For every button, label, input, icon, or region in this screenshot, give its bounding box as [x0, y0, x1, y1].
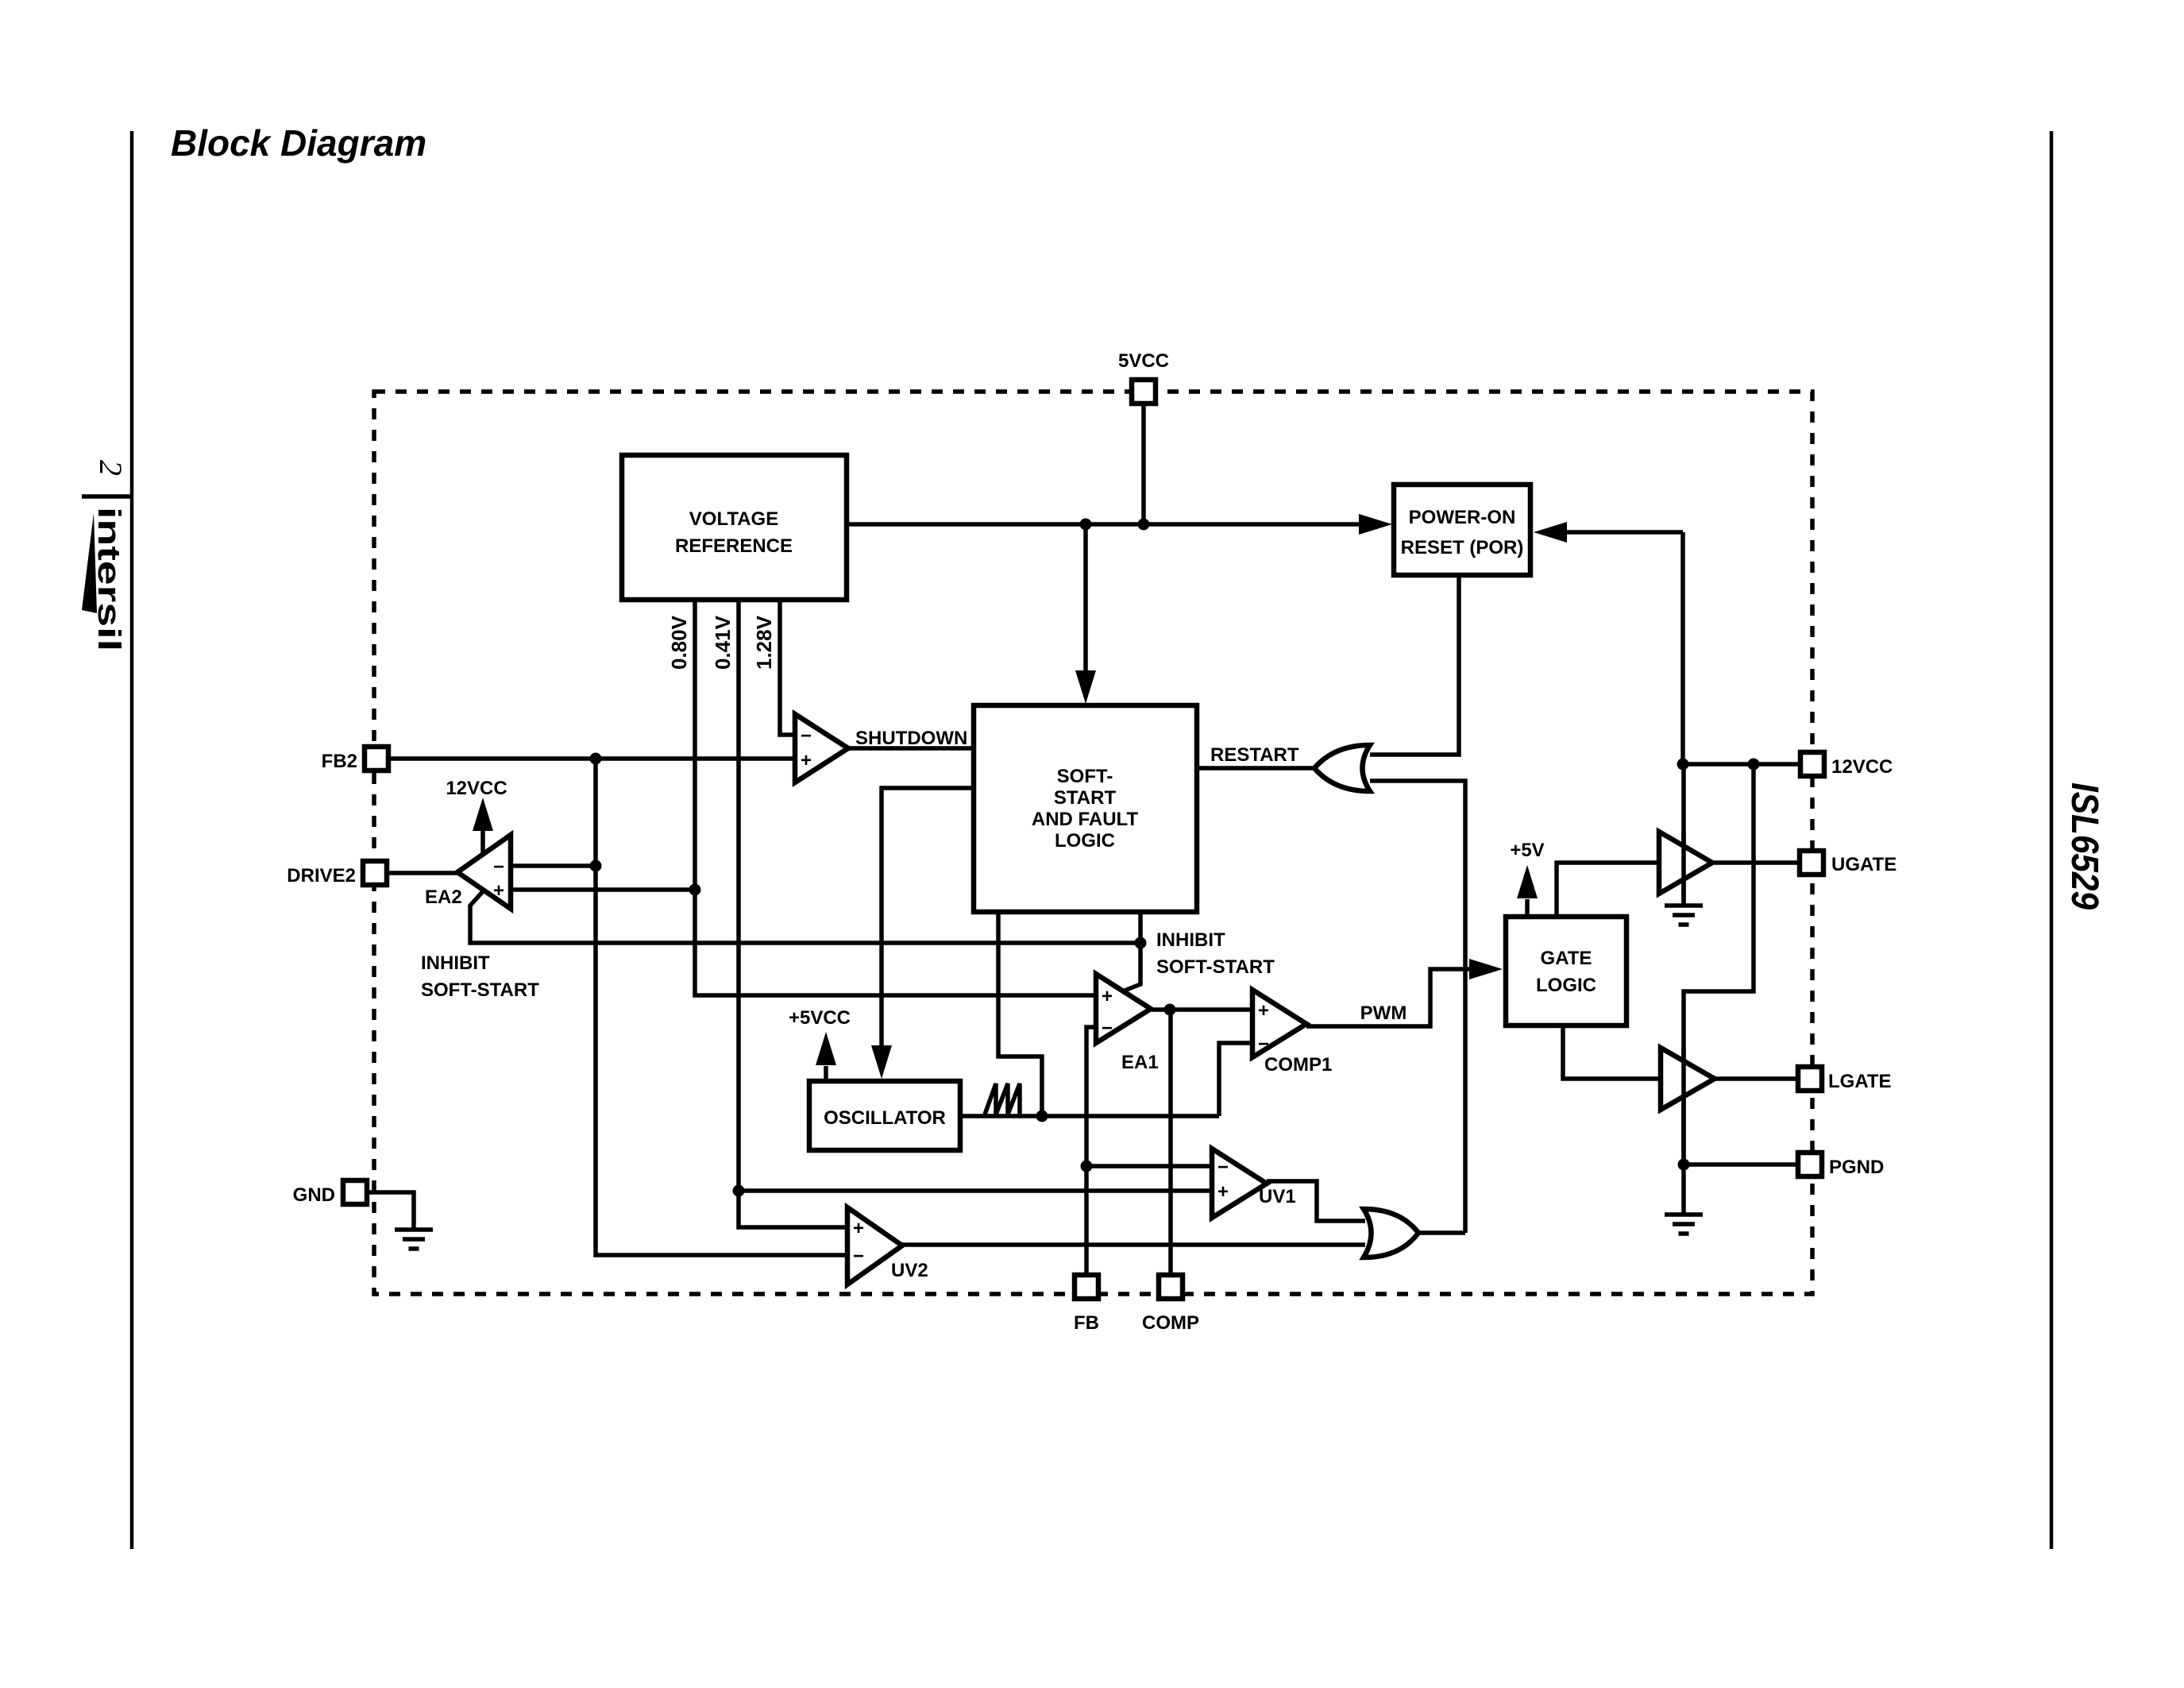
- svg-text:Block Diagram: Block Diagram: [171, 122, 426, 164]
- svg-text:5VCC: 5VCC: [1118, 350, 1169, 372]
- svg-text:RESTART: RESTART: [1210, 744, 1299, 766]
- svg-text:DRIVE2: DRIVE2: [287, 865, 356, 886]
- svg-text:12VCC: 12VCC: [446, 778, 507, 799]
- svg-text:LGATE: LGATE: [1828, 1071, 1892, 1092]
- svg-text:FB: FB: [1074, 1312, 1099, 1334]
- svg-text:0.80V: 0.80V: [667, 615, 691, 670]
- svg-text:−: −: [1258, 1033, 1269, 1055]
- svg-text:12VCC: 12VCC: [1831, 756, 1893, 778]
- svg-text:GATE: GATE: [1541, 948, 1592, 969]
- svg-text:UGATE: UGATE: [1831, 854, 1897, 875]
- svg-text:+: +: [1258, 1000, 1269, 1022]
- svg-text:2: 2: [93, 460, 129, 476]
- svg-text:RESET (POR): RESET (POR): [1401, 537, 1524, 558]
- svg-text:+: +: [853, 1218, 864, 1239]
- svg-text:SHUTDOWN: SHUTDOWN: [855, 728, 967, 749]
- svg-text:+5VCC: +5VCC: [789, 1007, 851, 1029]
- svg-text:ISL6529: ISL6529: [2063, 782, 2105, 910]
- svg-text:POWER-ON: POWER-ON: [1409, 507, 1516, 528]
- svg-text:EA2: EA2: [425, 886, 462, 908]
- svg-text:+: +: [1217, 1181, 1229, 1203]
- svg-text:INHIBIT: INHIBIT: [1156, 929, 1225, 951]
- svg-text:FB2: FB2: [322, 751, 357, 772]
- svg-text:LOGIC: LOGIC: [1055, 830, 1115, 852]
- svg-text:+: +: [801, 750, 812, 771]
- svg-text:−: −: [801, 725, 812, 747]
- svg-text:UV1: UV1: [1259, 1186, 1296, 1207]
- svg-text:UV2: UV2: [891, 1260, 928, 1281]
- svg-text:LOGIC: LOGIC: [1536, 975, 1596, 996]
- svg-text:PWM: PWM: [1360, 1002, 1407, 1024]
- svg-text:−: −: [493, 856, 504, 878]
- svg-text:+5V: +5V: [1510, 840, 1544, 861]
- svg-text:OSCILLATOR: OSCILLATOR: [824, 1107, 946, 1129]
- svg-text:PGND: PGND: [1829, 1157, 1884, 1178]
- svg-text:REFERENCE: REFERENCE: [675, 535, 793, 557]
- svg-text:+: +: [1102, 986, 1113, 1007]
- svg-text:−: −: [853, 1246, 864, 1267]
- svg-text:COMP1: COMP1: [1264, 1054, 1332, 1076]
- svg-text:COMP: COMP: [1142, 1312, 1199, 1334]
- svg-text:+: +: [493, 880, 504, 902]
- svg-text:INHIBIT: INHIBIT: [421, 952, 490, 974]
- svg-text:VOLTAGE: VOLTAGE: [689, 508, 778, 530]
- svg-text:1.28V: 1.28V: [752, 615, 776, 670]
- svg-text:START: START: [1054, 787, 1117, 809]
- svg-text:−: −: [1102, 1018, 1113, 1039]
- svg-text:SOFT-: SOFT-: [1057, 766, 1113, 787]
- svg-text:−: −: [1217, 1157, 1229, 1178]
- svg-text:0.41V: 0.41V: [711, 615, 735, 670]
- svg-text:SOFT-START: SOFT-START: [1156, 956, 1275, 978]
- svg-text:GND: GND: [293, 1184, 335, 1206]
- svg-text:SOFT-START: SOFT-START: [421, 979, 539, 1001]
- svg-text:intersil: intersil: [91, 507, 126, 651]
- svg-text:AND FAULT: AND FAULT: [1032, 809, 1139, 830]
- svg-text:EA1: EA1: [1121, 1052, 1159, 1073]
